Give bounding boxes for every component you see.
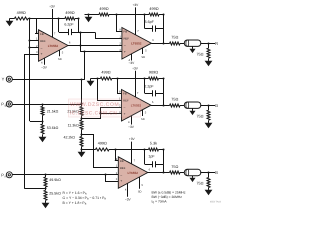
resistor R4 499ohm (U2 feedback): [149, 13, 159, 16]
svg-text:IQ = 70mA: IQ = 70mA: [152, 200, 168, 205]
U4 pin 6 output: [148, 172, 152, 174]
wire divider3: [45, 187, 47, 190]
op-amp U2 LT6552: [122, 28, 151, 60]
node A (U1 FB net): [28, 17, 30, 19]
capacitor C3 2.2pF: [144, 78, 146, 93]
svg-text:499Ω: 499Ω: [98, 142, 107, 146]
capacitor C4 1pF: [144, 149, 146, 164]
svg-text:499Ω: 499Ω: [65, 11, 74, 15]
svg-text:49.9kΩ: 49.9kΩ: [49, 178, 61, 182]
node R2 right: [77, 17, 79, 19]
U4 input pins 8,1,2,3: [115, 160, 119, 162]
wire C2 to U2 output: [163, 29, 165, 44]
wire G output: [200, 105, 215, 107]
wire U1 +IN rail: [24, 54, 38, 56]
wire U2 gain row: [85, 14, 100, 16]
ground G3 (connector shell): [192, 47, 194, 49]
svg-text:5.6pF: 5.6pF: [145, 20, 155, 24]
svg-text:REF: REF: [40, 39, 46, 43]
wire U2 FB to R4: [117, 14, 145, 16]
U3 pin 6 output: [151, 105, 155, 107]
svg-text:FB: FB: [120, 159, 124, 163]
wire U3 output row: [151, 105, 170, 107]
circuit schematic: YPbPr to RGB converter with four LT6552 video amplifiers: [0, 0, 222, 216]
svg-text:+3V: +3V: [132, 66, 139, 70]
wire R output: [200, 43, 215, 45]
resistor R9 42.2k: [80, 137, 83, 147]
node U3 ref tap: [96, 77, 98, 79]
svg-text:75Ω: 75Ω: [196, 114, 203, 118]
resistor R20 75ohm series: [170, 171, 181, 174]
wire U3 gain row: [91, 78, 101, 80]
svg-text:+: +: [41, 52, 43, 56]
svg-text:−3V: −3V: [128, 125, 135, 129]
svg-text:SD: SD: [141, 118, 145, 121]
svg-text:FB: FB: [124, 30, 128, 34]
U1 pin 5 SD: [59, 50, 61, 56]
ground G1 (U1 gain resistor): [9, 19, 11, 21]
svg-text:G: G: [215, 103, 218, 108]
ground G12 (B load): [208, 188, 210, 190]
wire Y riser: [84, 52, 86, 79]
resistor R8 11.3k: [80, 120, 83, 130]
svg-text:25.5kΩ: 25.5kΩ: [49, 192, 61, 196]
wire U3 REF riser: [98, 79, 122, 101]
svg-text:5.3k: 5.3k: [150, 142, 157, 146]
svg-text:6.2pF: 6.2pF: [64, 23, 74, 27]
U1 pin 4 V-: [44, 58, 46, 64]
wire U2 FB riser: [117, 15, 122, 32]
ground G7 (U3 gain resistor): [90, 79, 92, 81]
wire U3 FB riser: [118, 79, 122, 94]
wire PB chain riser: [81, 79, 83, 106]
wire U3 FB to R15: [117, 78, 145, 80]
node G2: [87, 13, 89, 15]
svg-text:1pF: 1pF: [148, 155, 155, 159]
svg-text:75Ω: 75Ω: [196, 182, 203, 186]
svg-text:−3V: −3V: [125, 197, 132, 201]
svg-text:+: +: [124, 50, 126, 54]
resistor R16 75ohm series: [170, 104, 181, 107]
wire top row U1: [10, 18, 15, 20]
wire chain2: [81, 130, 83, 137]
svg-text:REF: REF: [120, 166, 126, 170]
svg-text:LT6552: LT6552: [131, 42, 142, 46]
svg-text:53.6kΩ: 53.6kΩ: [47, 126, 59, 130]
node divider2 mid: [41, 120, 43, 122]
node U4 gain left: [80, 148, 82, 150]
svg-text:SD: SD: [141, 56, 145, 59]
svg-text:Y: Y: [2, 77, 5, 82]
svg-text:–: –: [120, 173, 122, 177]
ground G5 (PB divider): [42, 135, 44, 137]
node PR to U4 -IN: [104, 173, 106, 175]
resistor R19 5.3k (U4 feedback): [149, 148, 159, 151]
svg-text:IC.DZSC.COM.CN: IC.DZSC.COM.CN: [70, 111, 117, 117]
U1 pin 6 output: [68, 45, 72, 47]
connector B output: [184, 169, 201, 175]
svg-text:2.2pF: 2.2pF: [144, 85, 154, 89]
svg-text:R = Y + 1.6 • PR: R = Y + 1.6 • PR: [63, 191, 87, 196]
wire U4 output row: [148, 172, 170, 174]
node U2 FB: [115, 13, 117, 15]
svg-text:SD: SD: [138, 191, 142, 194]
svg-text:909Ω: 909Ω: [149, 70, 158, 74]
op-amp U3 LT6552: [122, 90, 152, 122]
svg-text:499Ω: 499Ω: [101, 70, 110, 74]
wire U1 FB riser: [37, 19, 39, 34]
U1 input pins 8,1,2,3: [35, 33, 39, 35]
svg-text:–: –: [124, 44, 126, 48]
wire tap1 to U3 -IN: [82, 108, 122, 119]
wire U4 FB to R19: [116, 149, 145, 151]
wire U1 -IN stub: [30, 47, 39, 49]
U4 pin 5 SD: [139, 177, 141, 189]
wire U1 -IN rail: [29, 18, 31, 121]
resistor R18 499ohm (U4 gain): [96, 148, 110, 151]
capacitor C2 5.6pF: [144, 15, 146, 29]
U3 pin 4 V-: [131, 116, 133, 125]
svg-text:499Ω: 499Ω: [99, 7, 108, 11]
ground G4 (R load): [208, 59, 210, 61]
wire PB line: [12, 104, 81, 106]
U2 pin 6 output: [151, 43, 155, 45]
wire to B connector: [180, 172, 184, 174]
U2 input pins 8,1,2,3: [118, 31, 122, 33]
wire to R connector: [180, 43, 184, 45]
svg-text:FB: FB: [123, 92, 127, 96]
svg-text:75Ω: 75Ω: [196, 52, 203, 56]
wire tap2 to U4 REF: [82, 135, 119, 168]
svg-text:+3V: +3V: [49, 4, 56, 8]
svg-text:WWW.DZSC.COM: WWW.DZSC.COM: [70, 102, 119, 108]
svg-text:11.3kΩ: 11.3kΩ: [68, 123, 80, 127]
svg-text:+: +: [120, 179, 122, 183]
resistor R14 499ohm (U3 gain): [100, 77, 111, 80]
U2 pin 5 SD: [142, 48, 144, 54]
connector PR input: [6, 172, 12, 178]
svg-text:R: R: [5, 175, 7, 178]
svg-text:499Ω: 499Ω: [17, 11, 26, 15]
node tap2: [80, 133, 82, 135]
svg-text:75Ω: 75Ω: [171, 165, 178, 169]
resistor R17 75ohm load: [207, 110, 210, 120]
U4 pin 7 V+: [131, 155, 133, 164]
wire U4 +IN riser: [106, 175, 119, 182]
connector PB input: [6, 101, 12, 107]
svg-text:+3V: +3V: [133, 3, 140, 7]
ground G6 (PR divider): [45, 201, 47, 203]
node R2 left: [57, 17, 59, 19]
resistor R1 499ohm (U1 gain): [15, 17, 29, 20]
svg-text:21.5kΩ: 21.5kΩ: [47, 110, 59, 114]
svg-text:G = Y − 0.34 • PB − 0.71 • PR: G = Y − 0.34 • PB − 0.71 • PR: [63, 196, 107, 201]
U2 pin 7 V+: [135, 26, 137, 35]
op-amp U4 LT6552: [118, 157, 148, 189]
wire Y line: [12, 79, 85, 81]
wire C4 to U4 output: [163, 164, 165, 172]
node PB divider top: [41, 103, 43, 105]
resistor R11 53.6k: [41, 124, 44, 134]
wire U1 out to U2 REF jog: [79, 32, 96, 34]
svg-text:6552 TA02: 6552 TA02: [210, 201, 222, 204]
node G load: [207, 104, 209, 106]
svg-text:75Ω: 75Ω: [171, 36, 178, 40]
svg-text:SD: SD: [58, 58, 62, 61]
wire U3 +IN stub: [101, 113, 122, 115]
node U1 -IN: [28, 46, 30, 48]
U1 pin 7 V+: [52, 28, 54, 37]
svg-text:B = Y + 1.8 • PB: B = Y + 1.8 • PB: [63, 201, 87, 206]
wire U1 REF stub: [30, 40, 39, 42]
decorative watermark (not labeled component): [69, 99, 141, 117]
wire branch to U2 +IN: [80, 32, 82, 52]
node tap1: [80, 117, 82, 119]
resistor R7 21.5k: [80, 107, 83, 116]
wire PR line: [12, 174, 118, 176]
svg-text:B: B: [215, 170, 218, 175]
node U3 +IN tap: [99, 112, 101, 114]
svg-text:FB: FB: [40, 32, 44, 36]
U2 pin 4 V-: [131, 54, 133, 61]
resistor R5 75ohm series: [170, 42, 181, 45]
svg-text:−3V: −3V: [41, 65, 48, 69]
node Y riser joins: [83, 50, 85, 52]
wire chain: [81, 116, 83, 121]
resistor R12 49.9k: [44, 177, 47, 187]
svg-text:499Ω: 499Ω: [149, 7, 158, 11]
resistor R6 75ohm load: [207, 48, 210, 58]
node B load: [207, 171, 209, 173]
node U4 output: [162, 171, 164, 173]
resistor R2 499ohm (U1 feedback): [65, 17, 75, 20]
ground G11 (connector shell): [192, 176, 194, 178]
node R load: [207, 42, 209, 44]
ground G9 (G load): [208, 121, 210, 123]
node U2 output: [162, 42, 164, 44]
connector R output: [184, 40, 201, 46]
resistor R21 75ohm load: [207, 178, 210, 188]
svg-text:LT6552: LT6552: [48, 44, 59, 48]
ground G8 (connector shell): [192, 109, 194, 111]
wire U4 gain row: [81, 149, 95, 151]
U3 pin 5 SD: [142, 110, 144, 116]
wire B output: [200, 172, 215, 174]
svg-text:BW (± 0.5dB) = 25MHz: BW (± 0.5dB) = 25MHz: [152, 191, 186, 195]
node divider3 mid: [44, 187, 46, 189]
ground G10 (chain + U4 gain): [81, 150, 83, 152]
svg-text:B: B: [5, 105, 7, 108]
wire C3 to U3 output: [163, 93, 165, 105]
U4 pin 4 V-: [127, 183, 129, 197]
wire to G connector: [180, 105, 184, 107]
wire U2 output row: [151, 43, 169, 45]
resistor R13 25.5k: [44, 190, 47, 200]
op-amp U1 LT6552: [39, 30, 69, 62]
resistor R3 499ohm (U2 gain): [99, 13, 109, 16]
resistor R10 21.5k: [41, 106, 44, 115]
svg-text:+3V: +3V: [129, 137, 136, 141]
node PR divider top: [44, 173, 46, 175]
wire divider2: [42, 115, 44, 124]
capacitor C1 6.2pF: [58, 18, 60, 32]
wire chain3: [81, 147, 83, 150]
connector G output: [184, 102, 201, 108]
ground G2 (U2 gain resistor): [88, 15, 90, 17]
svg-text:LT6552: LT6552: [128, 171, 139, 175]
wire U1 output row: [68, 45, 118, 47]
svg-text:75Ω: 75Ω: [171, 98, 178, 102]
connector Y input: [6, 76, 12, 82]
U3 input pins 8,1,2,3: [118, 93, 122, 95]
svg-text:–: –: [41, 46, 43, 50]
U3 pin 7 V+: [135, 88, 137, 97]
node U1 output: [79, 44, 81, 46]
svg-text:42.2kΩ: 42.2kΩ: [64, 136, 76, 140]
resistor R15 909ohm (U3 feedback): [149, 77, 159, 80]
wire U4 FB riser: [116, 150, 119, 161]
node U3 output: [162, 104, 164, 106]
svg-text:−3V: −3V: [129, 61, 136, 65]
svg-text:R: R: [215, 41, 218, 46]
node U4 FB: [114, 148, 116, 150]
svg-text:BW (−3dB) = 30MHz: BW (−3dB) = 30MHz: [152, 195, 183, 199]
svg-text:REF: REF: [124, 37, 130, 41]
